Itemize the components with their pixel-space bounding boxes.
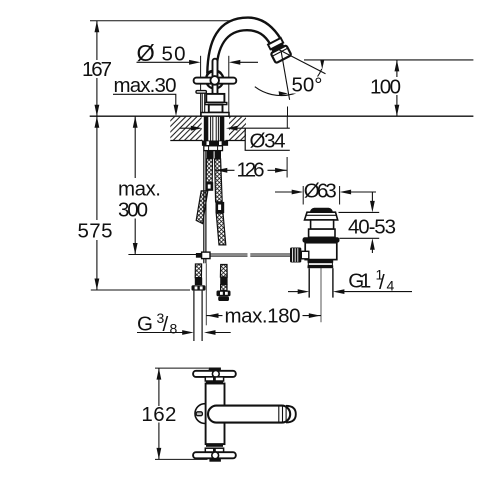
svg-text:max.180: max.180 xyxy=(225,304,301,327)
svg-text:100: 100 xyxy=(370,75,401,98)
svg-text:300: 300 xyxy=(118,198,148,221)
svg-text:126: 126 xyxy=(237,158,265,181)
svg-text:G: G xyxy=(137,312,153,335)
svg-text:G1: G1 xyxy=(348,270,371,293)
svg-text:max.30: max.30 xyxy=(114,74,177,97)
svg-text:162: 162 xyxy=(141,403,176,426)
svg-text:167: 167 xyxy=(82,58,112,81)
svg-text:max.: max. xyxy=(118,177,161,200)
svg-text:Ø63: Ø63 xyxy=(304,180,337,203)
svg-text:Ø34: Ø34 xyxy=(250,129,286,152)
svg-text:50°: 50° xyxy=(292,74,323,97)
svg-text:40-53: 40-53 xyxy=(348,215,396,238)
svg-text:575: 575 xyxy=(78,220,113,243)
svg-text:8: 8 xyxy=(170,321,178,337)
svg-text:/: / xyxy=(379,271,385,294)
